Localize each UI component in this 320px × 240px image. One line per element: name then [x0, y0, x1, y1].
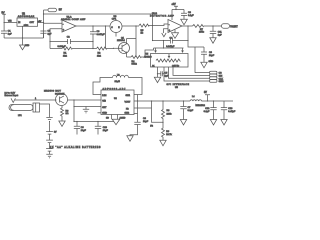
- svg-text:C9: C9: [209, 52, 213, 54]
- capacitor C8: [181, 12, 194, 19]
- svg-text:GND: GND: [25, 45, 30, 47]
- svg-text:OUT: OUT: [30, 22, 35, 24]
- svg-text:U1-A: U1-A: [67, 16, 73, 19]
- ground C8: [181, 19, 188, 25]
- ground pot: [154, 77, 160, 82]
- svg-text:MRD500 MOT: MRD500 MOT: [44, 90, 61, 92]
- regulator U2: [17, 18, 38, 27]
- svg-text:0.047µF: 0.047µF: [97, 34, 106, 36]
- wire ground rail regulator: [4, 26, 43, 45]
- svg-text:CS: CS: [219, 73, 223, 75]
- svg-text:1µF: 1µF: [8, 34, 12, 36]
- resistor R2: [97, 47, 107, 57]
- svg-text:28.7k: 28.7k: [166, 134, 172, 136]
- svg-text:2.0 to 3.2V: 2.0 to 3.2V: [5, 91, 16, 94]
- svg-text:GND: GND: [219, 81, 224, 83]
- wire input: [15, 98, 57, 100]
- svg-text:U4: U4: [114, 98, 118, 100]
- detector U3: [110, 21, 122, 37]
- svg-text:+5V: +5V: [172, 4, 177, 6]
- converter U4: [98, 90, 135, 115]
- svg-text:2N3904: 2N3904: [117, 40, 125, 42]
- svg-text:C12: C12: [205, 108, 210, 110]
- svg-text:GND: GND: [24, 25, 29, 27]
- capacitor C6: [130, 95, 149, 136]
- op-amp U1-B: [168, 20, 182, 33]
- op-amp U1-A: [62, 20, 76, 32]
- power flag 3V: [204, 92, 210, 101]
- resistor R5: [139, 24, 149, 34]
- ground C9: [201, 61, 214, 68]
- resistor R6: [59, 106, 69, 127]
- svg-text:100k: 100k: [199, 32, 205, 34]
- svg-text:U1-B: U1-B: [152, 13, 158, 15]
- svg-text:C13: C13: [228, 108, 233, 110]
- ground converter: [112, 119, 120, 125]
- wire emitter to pot: [145, 48, 154, 57]
- svg-text:VIN: VIN: [8, 21, 12, 23]
- svg-text:0.1µF: 0.1µF: [188, 15, 194, 17]
- digital pot U5: [151, 48, 189, 68]
- ground C12: [210, 120, 216, 126]
- svg-text:R9: R9: [166, 131, 170, 133]
- emitter U6 label: [44, 90, 65, 95]
- svg-text:U5: U5: [175, 87, 179, 89]
- svg-text:VOUT: VOUT: [230, 26, 238, 29]
- capacitor C5: [40, 31, 52, 38]
- svg-text:C10: C10: [103, 127, 108, 129]
- svg-text:2X "AA" ALKALINE BATTERIES: 2X "AA" ALKALINE BATTERIES: [50, 146, 101, 149]
- wire U1-B output: [182, 25, 222, 26]
- svg-text:5V: 5V: [59, 9, 62, 12]
- power flag 5V: [2, 12, 7, 24]
- svg-text:SET: SET: [102, 107, 107, 109]
- svg-text:SD: SD: [106, 117, 109, 119]
- svg-text:0.1µF: 0.1µF: [204, 111, 210, 113]
- svg-text:SW1: SW1: [126, 95, 131, 97]
- svg-text:0.47µF: 0.47µF: [228, 111, 236, 113]
- svg-text:C8: C8: [188, 12, 192, 14]
- wire feedback rail: [50, 26, 114, 49]
- resistor R7: [193, 25, 205, 34]
- svg-text:L4: L4: [192, 96, 195, 98]
- svg-text:GND: GND: [209, 61, 214, 63]
- svg-text:CLK: CLK: [219, 78, 224, 80]
- svg-text:SDI: SDI: [219, 76, 223, 78]
- wire feedback drop: [188, 26, 204, 73]
- ground C11: [210, 38, 216, 44]
- capacitor C9b: [74, 121, 87, 135]
- svg-text:AD5160: AD5160: [144, 55, 152, 58]
- svg-text:220k: 220k: [167, 113, 173, 115]
- ground C7: [180, 120, 186, 126]
- svg-text:1k: 1k: [141, 32, 144, 34]
- resistor R1: [62, 47, 72, 57]
- header J1: [210, 71, 224, 83]
- terminal 5V pill: [48, 8, 62, 11]
- capacitor C3: [90, 26, 105, 49]
- capacitor C1: [1, 23, 12, 39]
- svg-text:DETECTOR AMP: DETECTOR AMP: [150, 15, 174, 18]
- svg-text:E: E: [118, 27, 120, 29]
- capacitor C2: [50, 36, 93, 48]
- svg-text:AD8541 COMP AMP: AD8541 COMP AMP: [61, 18, 86, 21]
- svg-text:C11: C11: [218, 31, 223, 33]
- wire noninverting input U1-A: [49, 29, 62, 49]
- wire 5V node vertical: [43, 10, 48, 38]
- svg-text:U5: U5: [146, 54, 150, 56]
- ground C6: [127, 136, 133, 142]
- svg-text:LP1: LP1: [18, 115, 23, 117]
- svg-text:R2: R2: [98, 53, 102, 55]
- svg-text:1: 1: [35, 98, 37, 100]
- emitter U6: [56, 94, 68, 106]
- jack J2: [11, 98, 15, 102]
- capacitor C12: [204, 101, 217, 120]
- wire detector output: [122, 25, 139, 26]
- svg-text:1Ω: 1Ω: [66, 113, 69, 115]
- op-amp U1-A label: [61, 16, 86, 22]
- svg-text:10µF: 10µF: [103, 130, 109, 132]
- ground R9: [160, 140, 166, 146]
- wire ground rail bottom: [74, 121, 114, 123]
- ground regulator: [20, 45, 30, 50]
- ground lamp: [46, 118, 52, 122]
- svg-text:0.1µF: 0.1µF: [188, 110, 194, 112]
- capacitor C13: [221, 101, 236, 120]
- svg-text:R8: R8: [167, 110, 171, 112]
- svg-text:GND: GND: [102, 113, 107, 115]
- inductor L4: [190, 96, 206, 107]
- capacitor C11: [210, 26, 223, 38]
- wire to U1-B input: [148, 24, 168, 26]
- capacitor C10: [95, 121, 109, 135]
- svg-text:10µH: 10µH: [115, 81, 121, 83]
- wire regulator input: [4, 22, 17, 24]
- svg-text:C1: C1: [8, 31, 12, 33]
- svg-text:3V: 3V: [54, 132, 57, 134]
- capacitor C4: [152, 38, 189, 49]
- svg-text:C9: C9: [81, 127, 85, 129]
- svg-text:1kΩ: 1kΩ: [63, 55, 67, 57]
- svg-text:R1: R1: [64, 53, 68, 55]
- svg-text:ILIM: ILIM: [102, 95, 106, 97]
- converter bottom pins: [106, 115, 126, 120]
- svg-text:C6: C6: [143, 118, 147, 120]
- svg-text:VIN: VIN: [102, 101, 106, 103]
- svg-text:C: C: [111, 27, 113, 29]
- svg-text:C3: C3: [97, 31, 101, 33]
- resistor R8: [162, 101, 173, 122]
- wire SPI bus: [164, 67, 210, 81]
- power flag +5V U1-B: [172, 4, 179, 10]
- svg-text:C7: C7: [188, 107, 192, 109]
- svg-text:R6: R6: [66, 110, 70, 112]
- ground C13: [221, 120, 227, 126]
- external input label: [5, 91, 19, 97]
- svg-text:10µF: 10µF: [209, 55, 215, 57]
- wire +5V rail drop: [152, 14, 154, 41]
- regulator U2 label: [18, 14, 35, 19]
- terminal VOUT: [222, 24, 239, 29]
- svg-text:10µF: 10µF: [143, 121, 149, 123]
- svg-text:IN: IN: [18, 22, 21, 24]
- resistor R4: [131, 56, 145, 66]
- ground mid: [83, 107, 89, 113]
- svg-text:C2: C2: [67, 36, 71, 38]
- wire supply U1-B: [172, 10, 184, 21]
- resistor R9: [162, 122, 173, 140]
- capacitor C5b pot bypass: [157, 67, 169, 78]
- detector U3 label: [112, 16, 117, 21]
- wire FB tap: [134, 101, 164, 127]
- op-amp U1-B label: [150, 13, 174, 18]
- svg-text:C5: C5: [165, 72, 169, 74]
- wire collector link: [127, 26, 137, 57]
- svg-text:NHM4532: NHM4532: [196, 105, 206, 107]
- wire line1 to converter: [68, 99, 102, 100]
- transistor Q1: [113, 39, 130, 58]
- svg-text:SPI INTERFACE: SPI INTERFACE: [167, 83, 190, 86]
- capacitor C9: [201, 47, 215, 62]
- wire inverting input U1-A: [44, 22, 63, 24]
- svg-text:1kΩ: 1kΩ: [97, 55, 101, 57]
- svg-text:-: -: [63, 23, 64, 26]
- svg-text:10µF: 10µF: [81, 130, 87, 132]
- digital pot U5 label: [144, 54, 152, 59]
- svg-text:1µF: 1µF: [218, 34, 222, 36]
- svg-text:3V: 3V: [204, 92, 207, 94]
- ground U1-B: [172, 30, 179, 39]
- wire line2 to converter: [73, 100, 101, 122]
- svg-text:AGND: AGND: [120, 116, 126, 119]
- wire U1-A output: [76, 25, 110, 26]
- svg-text:965Ω: 965Ω: [132, 63, 138, 65]
- wire output rail: [134, 100, 233, 101]
- svg-text:C5: C5: [48, 31, 52, 33]
- battery B1: [46, 121, 57, 154]
- wire lamp return: [40, 104, 50, 117]
- wire +5V top rail: [44, 13, 153, 15]
- svg-text:-: -: [169, 24, 170, 27]
- ground battery: [46, 154, 52, 158]
- svg-text:FB: FB: [150, 125, 153, 127]
- svg-text:VOUT: VOUT: [125, 102, 132, 104]
- wire noninverting to wiper: [162, 29, 168, 49]
- svg-text:External Input: External Input: [5, 94, 19, 97]
- svg-text:0.033µF: 0.033µF: [58, 46, 67, 48]
- bus caption: [167, 83, 190, 89]
- inductor L3: [93, 74, 142, 94]
- transistor Q1 label: [117, 38, 125, 43]
- wire regulator output: [38, 22, 44, 24]
- svg-text:R7: R7: [200, 29, 204, 31]
- capacitor C7: [180, 101, 194, 120]
- svg-text:+5V: +5V: [38, 21, 42, 23]
- lamp LP1: [9, 103, 40, 117]
- svg-text:FB: FB: [126, 109, 129, 111]
